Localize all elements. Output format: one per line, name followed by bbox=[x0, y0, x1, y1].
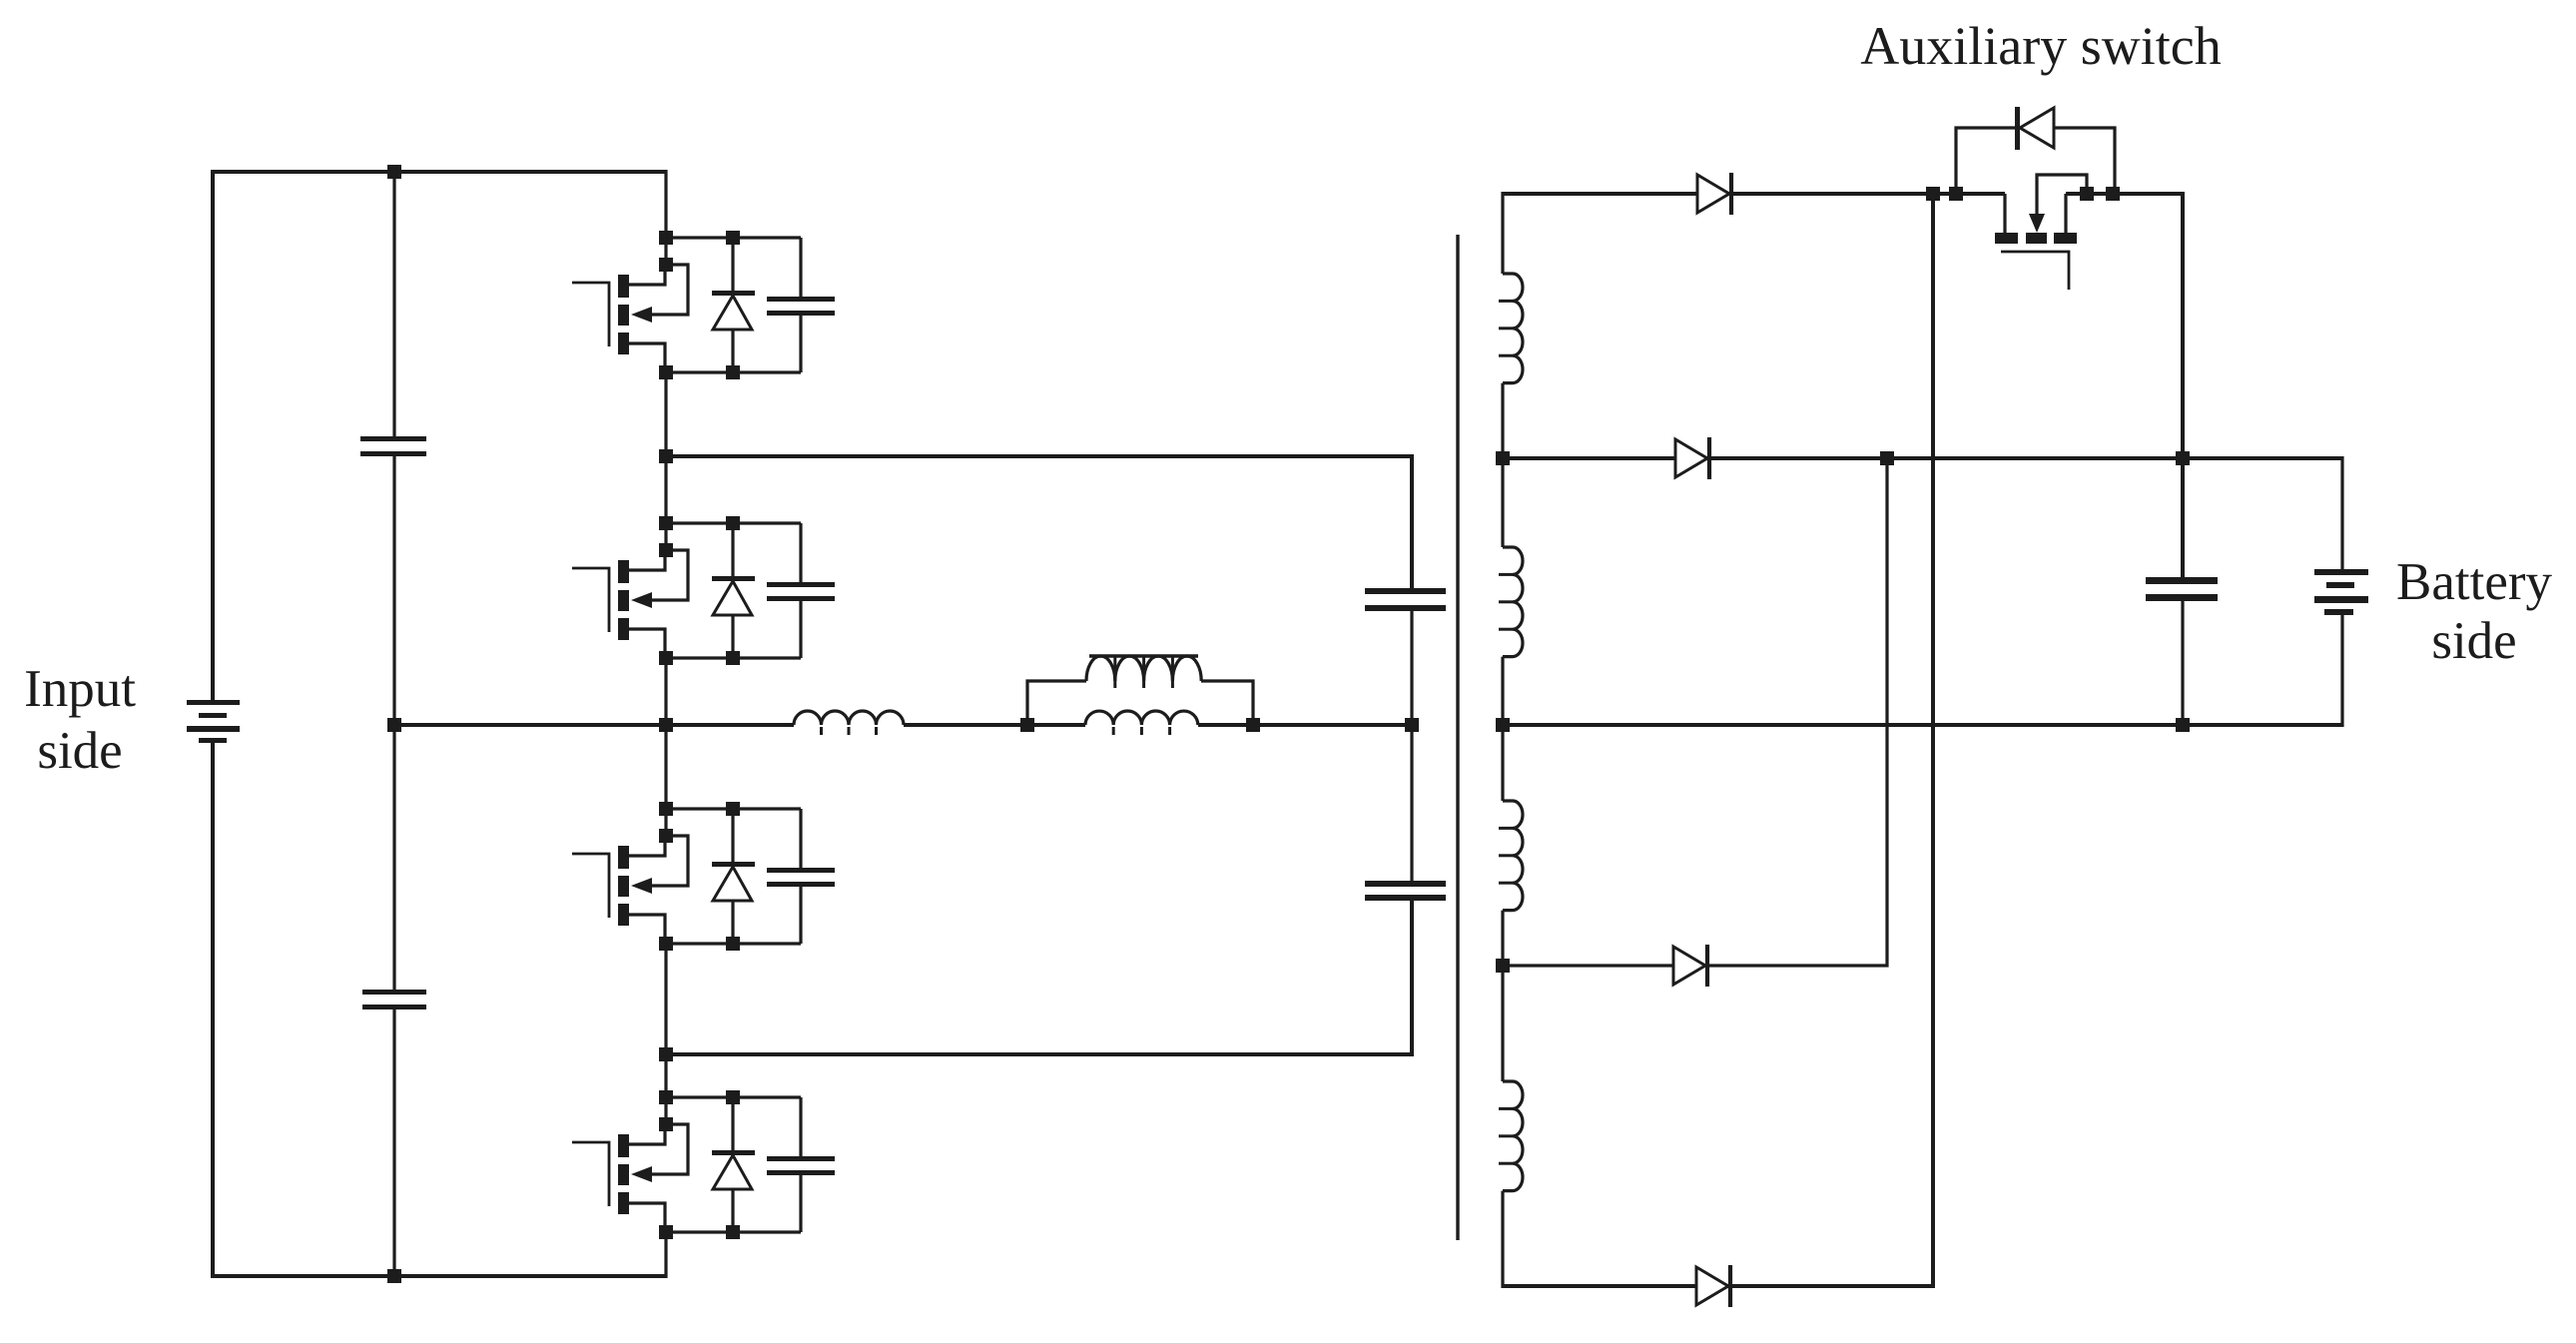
node A (upper leg midpoint) bbox=[659, 449, 673, 463]
wire left rail lower (battery bottom lead) bbox=[213, 743, 666, 1276]
capacitor C2 (snubber across Q2) bbox=[799, 523, 802, 582]
wire aux node segment bbox=[2066, 194, 2183, 579]
wire secondary seg2 bbox=[1501, 383, 1504, 547]
node switch S4 drain junction bbox=[659, 1090, 673, 1104]
inductor secondary winding S4 bbox=[1503, 1081, 1523, 1191]
svg-text:Input: Input bbox=[24, 660, 136, 718]
wire rectifier top rail (to aux switch) bbox=[1503, 192, 2005, 196]
transistor Q3 (MOSFET) bbox=[572, 854, 609, 918]
wire switch column seg3 bbox=[664, 657, 667, 837]
wire S4 branch top bbox=[666, 1095, 801, 1098]
inductor secondary winding S3 bbox=[1503, 801, 1523, 911]
wire secondary bottom segment bbox=[1501, 1191, 1504, 1288]
wire S2 branch bottom bbox=[666, 656, 801, 659]
wire secondary seg4 bbox=[1501, 911, 1504, 1081]
wire S3 branch top bbox=[666, 807, 801, 810]
transistor Q2 (MOSFET) bbox=[572, 568, 609, 632]
wire S3 branch bottom bbox=[666, 942, 801, 945]
wire mid rail center bbox=[904, 723, 1085, 727]
wire output cap leg lower bbox=[2181, 601, 2184, 727]
wire switch column seg1 bbox=[664, 170, 667, 266]
wire switch column seg5 bbox=[664, 1231, 667, 1278]
diode D8 (bottom rectifier) bbox=[1696, 1267, 1728, 1305]
inductor secondary winding S1 bbox=[1503, 274, 1523, 383]
wire S4 branch bottom bbox=[666, 1230, 801, 1233]
diode D5 (top rectifier) bbox=[1697, 175, 1729, 213]
wire rectifier bottom branch bbox=[1503, 194, 1933, 1286]
wire phase A to primary cap bbox=[666, 456, 1412, 590]
wire output bottom rail bbox=[1503, 723, 2342, 727]
svg-text:Auxiliary switch: Auxiliary switch bbox=[1860, 16, 2221, 76]
capacitor Co (output filter cap) bbox=[2146, 577, 2218, 584]
inductor secondary winding S2 bbox=[1503, 547, 1523, 657]
capacitor Cb (primary series cap lower) bbox=[1365, 881, 1446, 887]
wire input cap leg middle bbox=[392, 456, 395, 990]
battery Vbat (output battery) bbox=[2314, 569, 2368, 575]
node B (lower leg midpoint) bbox=[659, 1047, 673, 1061]
capacitor Ca (primary series cap upper) bbox=[1365, 588, 1446, 594]
wire secondary seg3 bbox=[1501, 657, 1504, 801]
diode D1 (body diode of Q1) bbox=[731, 238, 734, 292]
svg-text:side: side bbox=[2431, 612, 2516, 670]
wire S1 branch top bbox=[666, 236, 801, 239]
capacitor C3 (snubber across Q3) bbox=[799, 809, 802, 868]
capacitor Cin2 (lower input divider cap) bbox=[362, 990, 426, 995]
node switch S1 drain junction bbox=[659, 231, 673, 245]
diode D4 (body diode of Q4) bbox=[731, 1097, 734, 1151]
diode D3 (body diode of Q3) bbox=[731, 809, 734, 863]
wire switch column seg2 bbox=[664, 370, 667, 551]
capacitor C4 (snubber across Q4) bbox=[799, 1097, 802, 1156]
node mid-rail junction at bridge bbox=[659, 718, 673, 732]
diode D6 (second rectifier) bbox=[1675, 439, 1707, 477]
inductor L1 (series filter inductor) bbox=[794, 711, 904, 725]
wire third rectifier branch bbox=[1503, 458, 1887, 966]
wire primary leg middle bbox=[1410, 611, 1413, 883]
wire mid rail right bbox=[1198, 723, 1412, 727]
node switch S3 drain junction bbox=[659, 802, 673, 816]
transformer core bbox=[1456, 235, 1459, 1240]
svg-text:Battery: Battery bbox=[2396, 553, 2552, 611]
wire S2 branch top bbox=[666, 521, 801, 524]
inductor L2 (clamp lower winding) bbox=[1085, 711, 1198, 725]
wire phase B to primary cap bbox=[666, 901, 1412, 1054]
wire top rail bbox=[213, 172, 666, 702]
wire battery leg upper bbox=[2340, 456, 2343, 571]
inductor L3 (clamp upper winding, parallel branch) bbox=[1027, 681, 1086, 725]
diode D7 (third rectifier) bbox=[1673, 947, 1705, 985]
transistor Q5 (auxiliary switch MOSFET) bbox=[2003, 194, 2006, 234]
node switch S2 drain junction bbox=[659, 516, 673, 530]
wire mid rail left bbox=[394, 723, 794, 727]
diode D2 (body diode of Q2) bbox=[731, 523, 734, 577]
wire switch column seg4 bbox=[664, 943, 667, 1125]
battery Vin (input source) bbox=[187, 700, 240, 705]
wire input cap leg lower bbox=[392, 1009, 395, 1276]
wire rectifier output rail bbox=[1503, 456, 2342, 460]
transistor Q1 (MOSFET) bbox=[572, 283, 609, 346]
capacitor Cin1 (upper input divider cap) bbox=[360, 436, 426, 441]
diode D9 (aux anti-parallel diode) bbox=[1956, 128, 2016, 194]
wire S1 branch bottom bbox=[666, 370, 801, 373]
svg-text:side: side bbox=[37, 722, 122, 780]
transistor Q4 (MOSFET) bbox=[572, 1142, 609, 1206]
capacitor C1 (snubber across Q1) bbox=[799, 238, 802, 297]
wire input cap leg upper bbox=[392, 172, 395, 436]
wire secondary top segment bbox=[1501, 192, 1504, 274]
